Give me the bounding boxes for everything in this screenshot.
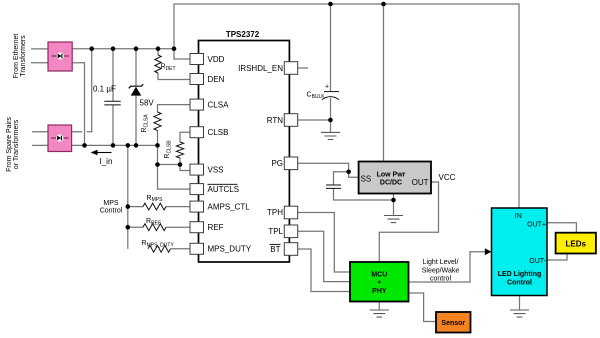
op IC TPS2372 body [199, 30, 290, 262]
wire: arrowhead into LED Lighting Control IN [485, 248, 492, 255]
wire: bridge 1 negative output down to VSS rail (hops over bridge2 wire) [72, 63, 85, 146]
wire: outer top rail from node above VDD rail to LED control IN [174, 4, 519, 208]
junction node on top rail at DC/DC feed [381, 2, 386, 7]
resistor RCLSA [141, 112, 161, 133]
wire: soft-start cap bottom to DC/DC ground stem [334, 188, 394, 200]
resistor RDET [155, 55, 176, 73]
svg-text:VCC: VCC [439, 173, 456, 182]
junction node on VDD rail at top rail drop [172, 46, 177, 51]
junction node on MPS feed at RMPS [126, 204, 131, 209]
pin VDD [190, 54, 225, 65]
wire: RDET top lead from VDD rail [157, 49, 159, 55]
svg-text:DC/DC: DC/DC [380, 180, 402, 187]
svg-text:TPH: TPH [267, 208, 283, 217]
svg-text:Control: Control [100, 208, 123, 215]
wire: zener leads [135, 49, 137, 146]
resistor RMPS [143, 195, 166, 210]
block: LEDs [556, 233, 596, 254]
junction node at DC/DC ground and SS cap [391, 198, 396, 203]
svg-text:+: + [377, 280, 381, 287]
wire: RMPS_DUTY leads to MPS_DUTY pin [148, 248, 190, 250]
wire: MCU ground stem [378, 302, 380, 311]
pin AMPS_CTL [190, 201, 250, 212]
pin RTN [267, 114, 298, 127]
pin CLSA [190, 99, 229, 110]
junction node at RTN and CBULK [328, 118, 333, 123]
pin TPH [267, 206, 298, 219]
svg-text:BT: BT [270, 245, 280, 254]
wire: VSS rail [72, 144, 158, 146]
svg-text:Light Level/: Light Level/ [423, 259, 459, 266]
wire: 0.1uF cap top and bottom leads [112, 49, 114, 146]
svg-text:0.1 µF: 0.1 µF [93, 85, 116, 94]
svg-text:Transformers: Transformers [20, 35, 27, 77]
svg-text:Sensor: Sensor [441, 320, 465, 327]
wire: CBULK bottom lead through RTN node to ground [330, 98, 332, 132]
svg-text:DEN: DEN [208, 75, 225, 84]
pin VSS [190, 164, 224, 175]
label: Light Level / Sleep/Wake control [422, 259, 460, 283]
svg-text:Control: Control [507, 280, 532, 287]
svg-text:I_in: I_in [100, 157, 113, 166]
block: LED Lighting Control [492, 208, 548, 296]
junction node on MPS feed at RREF [126, 225, 131, 230]
bridge rectifier from spare pairs [48, 125, 72, 152]
junction node on VSS rail at RCLSA [155, 143, 160, 148]
resistor RCLSB [164, 140, 184, 159]
svg-text:LEDs: LEDs [565, 240, 586, 249]
ground under DC/DC [384, 216, 403, 223]
svg-text:MCU: MCU [371, 272, 387, 279]
wire: LED control ground stem [519, 296, 521, 311]
junction node on VSS rail at zener [134, 143, 139, 148]
wire: MCU to sensor [409, 293, 437, 322]
pin AUTCLS (active low) [190, 184, 239, 195]
svg-text:TPS2372: TPS2372 [226, 30, 260, 39]
wire: VDD rail drop into VDD pin [174, 49, 190, 59]
svg-text:Sleep/Wake: Sleep/Wake [422, 268, 460, 275]
wire: VDD rail from bridge 1 output [72, 48, 174, 50]
wire: VCC from DC/DC OUT to MCU top [379, 182, 438, 262]
svg-text:VDD: VDD [208, 55, 225, 64]
junction node on top rail at CBULK [328, 2, 333, 7]
wire: PG pin to SS node and into DC/DC SS input [298, 163, 359, 177]
junction node A below RCLSA [155, 162, 160, 167]
wire: MCU to LED control signal line [409, 252, 486, 282]
svg-text:AUTCLS: AUTCLS [208, 185, 240, 194]
svg-text:IN: IN [515, 213, 522, 220]
pin BT (active low) [270, 243, 298, 256]
svg-text:or Transformers: or Transformers [13, 119, 20, 169]
wire: RREF leads to REF pin [128, 226, 190, 228]
svg-text:RTN: RTN [267, 116, 284, 125]
pin PG [271, 157, 297, 170]
svg-text:IRSHDL_EN: IRSHDL_EN [238, 64, 283, 73]
wire: MPS control vertical feed from VSS rail [127, 145, 129, 248]
resistor RREF [143, 218, 166, 231]
wire: bridge 2 positive output up to VDD rail (gap hop at crossing) [72, 49, 92, 132]
wire: LED control OUT- to LEDs [547, 254, 567, 260]
wire: CLSA pin to RCLSA [158, 105, 191, 112]
wire: SS node branch to soft-start cap [334, 172, 349, 185]
wire: bridge 2 left input stubs [32, 132, 48, 146]
zener diode 58V [129, 84, 155, 107]
svg-text:control: control [430, 276, 451, 283]
svg-text:PG: PG [271, 159, 283, 168]
svg-text:SS: SS [361, 175, 372, 184]
svg-text:MPS: MPS [103, 200, 119, 207]
pin TPL [268, 225, 297, 238]
svg-text:VSS: VSS [208, 165, 224, 174]
svg-text:REF: REF [208, 223, 224, 232]
capacitor 0.1uF [93, 85, 121, 105]
svg-text:OUT: OUT [412, 178, 429, 187]
pin CLSB [190, 127, 228, 138]
svg-text:LED Lighting: LED Lighting [498, 271, 542, 278]
capacitor soft-start on SS [326, 185, 341, 188]
wire: DC/DC ground stem [393, 194, 395, 216]
wire: TPL pin to MCU [298, 231, 350, 281]
wire: bridge 1 left input stubs [31, 49, 48, 63]
wire: RMPS leads to AMPS_CTL pin [128, 206, 190, 208]
wire: RDET bottom lead to DEN pin [158, 73, 190, 80]
wire: node A to node B [158, 164, 181, 166]
svg-text:AMPS_CTL: AMPS_CTL [208, 202, 251, 211]
junction node on VSS rail at 0.1uF [111, 143, 116, 148]
junction node on VDD rail at 0.1uF [111, 46, 116, 51]
wire: RCLSB bottom to node B [179, 158, 181, 165]
label: From Ethernet Transformers [13, 34, 27, 79]
resistor RMPS_DUTY [142, 240, 175, 252]
wire: CBULK top feed from top rail [330, 4, 332, 92]
svg-text:OUT+: OUT+ [527, 222, 546, 229]
svg-text:CLSA: CLSA [208, 100, 230, 109]
label: MPS Control [100, 200, 123, 215]
wire: RTN pin to CBULK node [298, 119, 331, 121]
ground under CBULK [321, 132, 340, 139]
svg-text:From Spare Pairs: From Spare Pairs [6, 117, 13, 172]
svg-text:+: + [325, 84, 329, 91]
svg-text:58V: 58V [140, 99, 155, 108]
ground under MCU [370, 310, 389, 317]
wire: BT pin to MCU [298, 249, 350, 292]
svg-text:Low Pwr: Low Pwr [377, 172, 406, 179]
ground under LED Lighting Control [510, 310, 529, 317]
junction node on VSS rail at bridge1 feed [82, 143, 87, 148]
wire: CLSB pin to RCLSB [180, 132, 190, 142]
block: Low Pwr DC/DC [359, 162, 431, 194]
junction node on VDD rail at zener [134, 46, 139, 51]
pin DEN [190, 74, 225, 85]
svg-text:MPS_DUTY: MPS_DUTY [208, 245, 252, 254]
junction node B below RCLSB [178, 162, 183, 167]
bridge rectifier from Ethernet transformers [48, 42, 72, 71]
junction node on VDD rail at RDET [156, 46, 161, 51]
pin IRSHDL_EN [238, 62, 298, 75]
wire: node B step into VSS pin [180, 165, 190, 171]
svg-text:From Ethernet: From Ethernet [13, 34, 20, 79]
wire: RCLSA bottom through VSS rail node down to node A [157, 131, 159, 165]
block: MCU + PHY [350, 262, 409, 302]
current arrow I_in [91, 150, 113, 166]
pin REF [190, 222, 224, 233]
wire: TPH pin to MCU [298, 213, 350, 273]
svg-text:OUT-: OUT- [529, 258, 546, 265]
junction node at SS cap branch [346, 170, 351, 175]
wire: IRSHDL_EN stub [298, 67, 308, 69]
block: Sensor [436, 312, 471, 333]
label: From Spare Pairs or Transformers [6, 117, 20, 172]
wire: node A down to AUTCLS pin [158, 165, 191, 190]
svg-text:TPL: TPL [268, 227, 283, 236]
svg-text:CLSB: CLSB [208, 128, 229, 137]
capacitor CBULK [307, 84, 340, 101]
pin MPS_DUTY [190, 243, 252, 254]
junction node on VDD rail at bridge2 feed [89, 46, 94, 51]
junction node on VSS rail at MPS feed [126, 143, 131, 148]
wire: LED control OUT+ to LEDs [547, 223, 576, 233]
wire: DC/DC input feed from top rail [383, 4, 385, 162]
svg-text:PHY: PHY [372, 288, 387, 295]
